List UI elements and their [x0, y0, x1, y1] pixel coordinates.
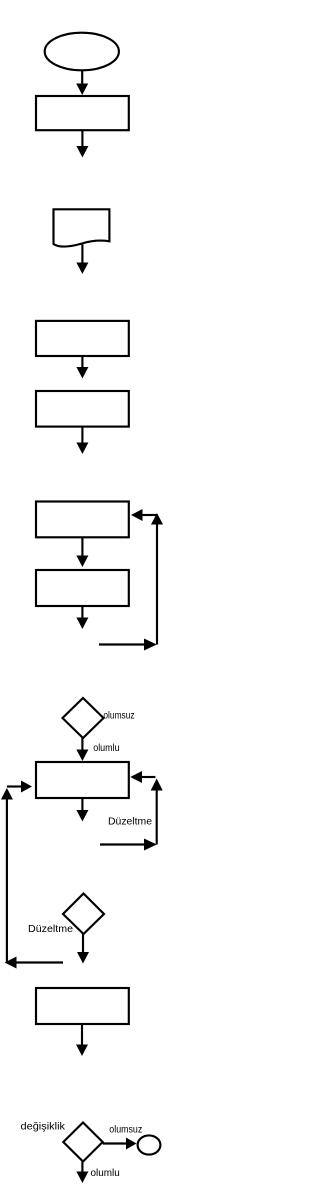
svg-text:değişiklik: değişiklik — [21, 1122, 66, 1133]
wire arrow A5 below box 3 — [76, 427, 88, 454]
svg-text:Düzeltme: Düzeltme — [28, 924, 74, 935]
decision diamond 3 — [63, 1123, 102, 1162]
wire arrow A13 diamond 3 right to end terminator — [103, 1138, 137, 1150]
wire arrow A7 below box 5 — [76, 606, 88, 629]
process box 7 — [36, 988, 129, 1024]
wire arrow A1 ellipse to process box 1 — [76, 70, 88, 95]
process box 5 — [36, 570, 129, 606]
wire arrow A8 diamond 1 to box 6 — [76, 738, 88, 761]
process box 1 — [36, 96, 129, 130]
svg-text:olumlu: olumlu — [91, 1168, 120, 1179]
wire duzeltme right vertical arrow V2 — [151, 779, 163, 845]
end terminator ellipse — [138, 1135, 161, 1154]
wire duzeltme top horizontal arrow H4 into box 6 right — [130, 771, 155, 783]
decision diamond 2 — [63, 894, 104, 935]
wire arrow A10 diamond 2 down — [77, 934, 89, 964]
wire arrow A11 below box 7 — [76, 1024, 88, 1056]
wire feedback top horizontal arrow H2 into box 4 — [131, 509, 157, 521]
wire arrow A6 box 4 to box 5 — [76, 537, 88, 567]
wire arrow A9 below box 6 — [76, 798, 88, 822]
process box 4 — [36, 502, 129, 538]
svg-text:olumlu: olumlu — [93, 743, 120, 754]
document shape — [54, 209, 110, 246]
wire left loop vertical arrow V3 — [1, 788, 13, 963]
wire feedback bottom horizontal arrow H1 — [99, 639, 157, 651]
process box 3 — [36, 391, 129, 427]
wire arrow A12 diamond 3 down — [76, 1162, 88, 1184]
start terminator ellipse — [45, 33, 119, 71]
wire arrow A4 box 2 to box 3 — [76, 356, 88, 379]
svg-text:Düzeltme: Düzeltme — [108, 817, 153, 828]
wire left loop bottom horizontal arrow H5 — [5, 957, 63, 969]
wire feedback right vertical arrow V1 — [151, 513, 163, 645]
process box 6 — [36, 762, 129, 798]
process box 2 — [36, 321, 129, 356]
wire left loop horizontal arrow H6 into box 6 left — [7, 781, 32, 793]
wire duzeltme bottom horizontal arrow H3 — [100, 839, 157, 851]
svg-text:olumsuz: olumsuz — [109, 1125, 142, 1136]
wire arrow A2 below box 1 — [76, 130, 88, 157]
svg-text:olumsuz: olumsuz — [103, 711, 134, 722]
decision diamond 1 — [63, 698, 104, 738]
wire arrow A3 below document — [76, 245, 88, 275]
